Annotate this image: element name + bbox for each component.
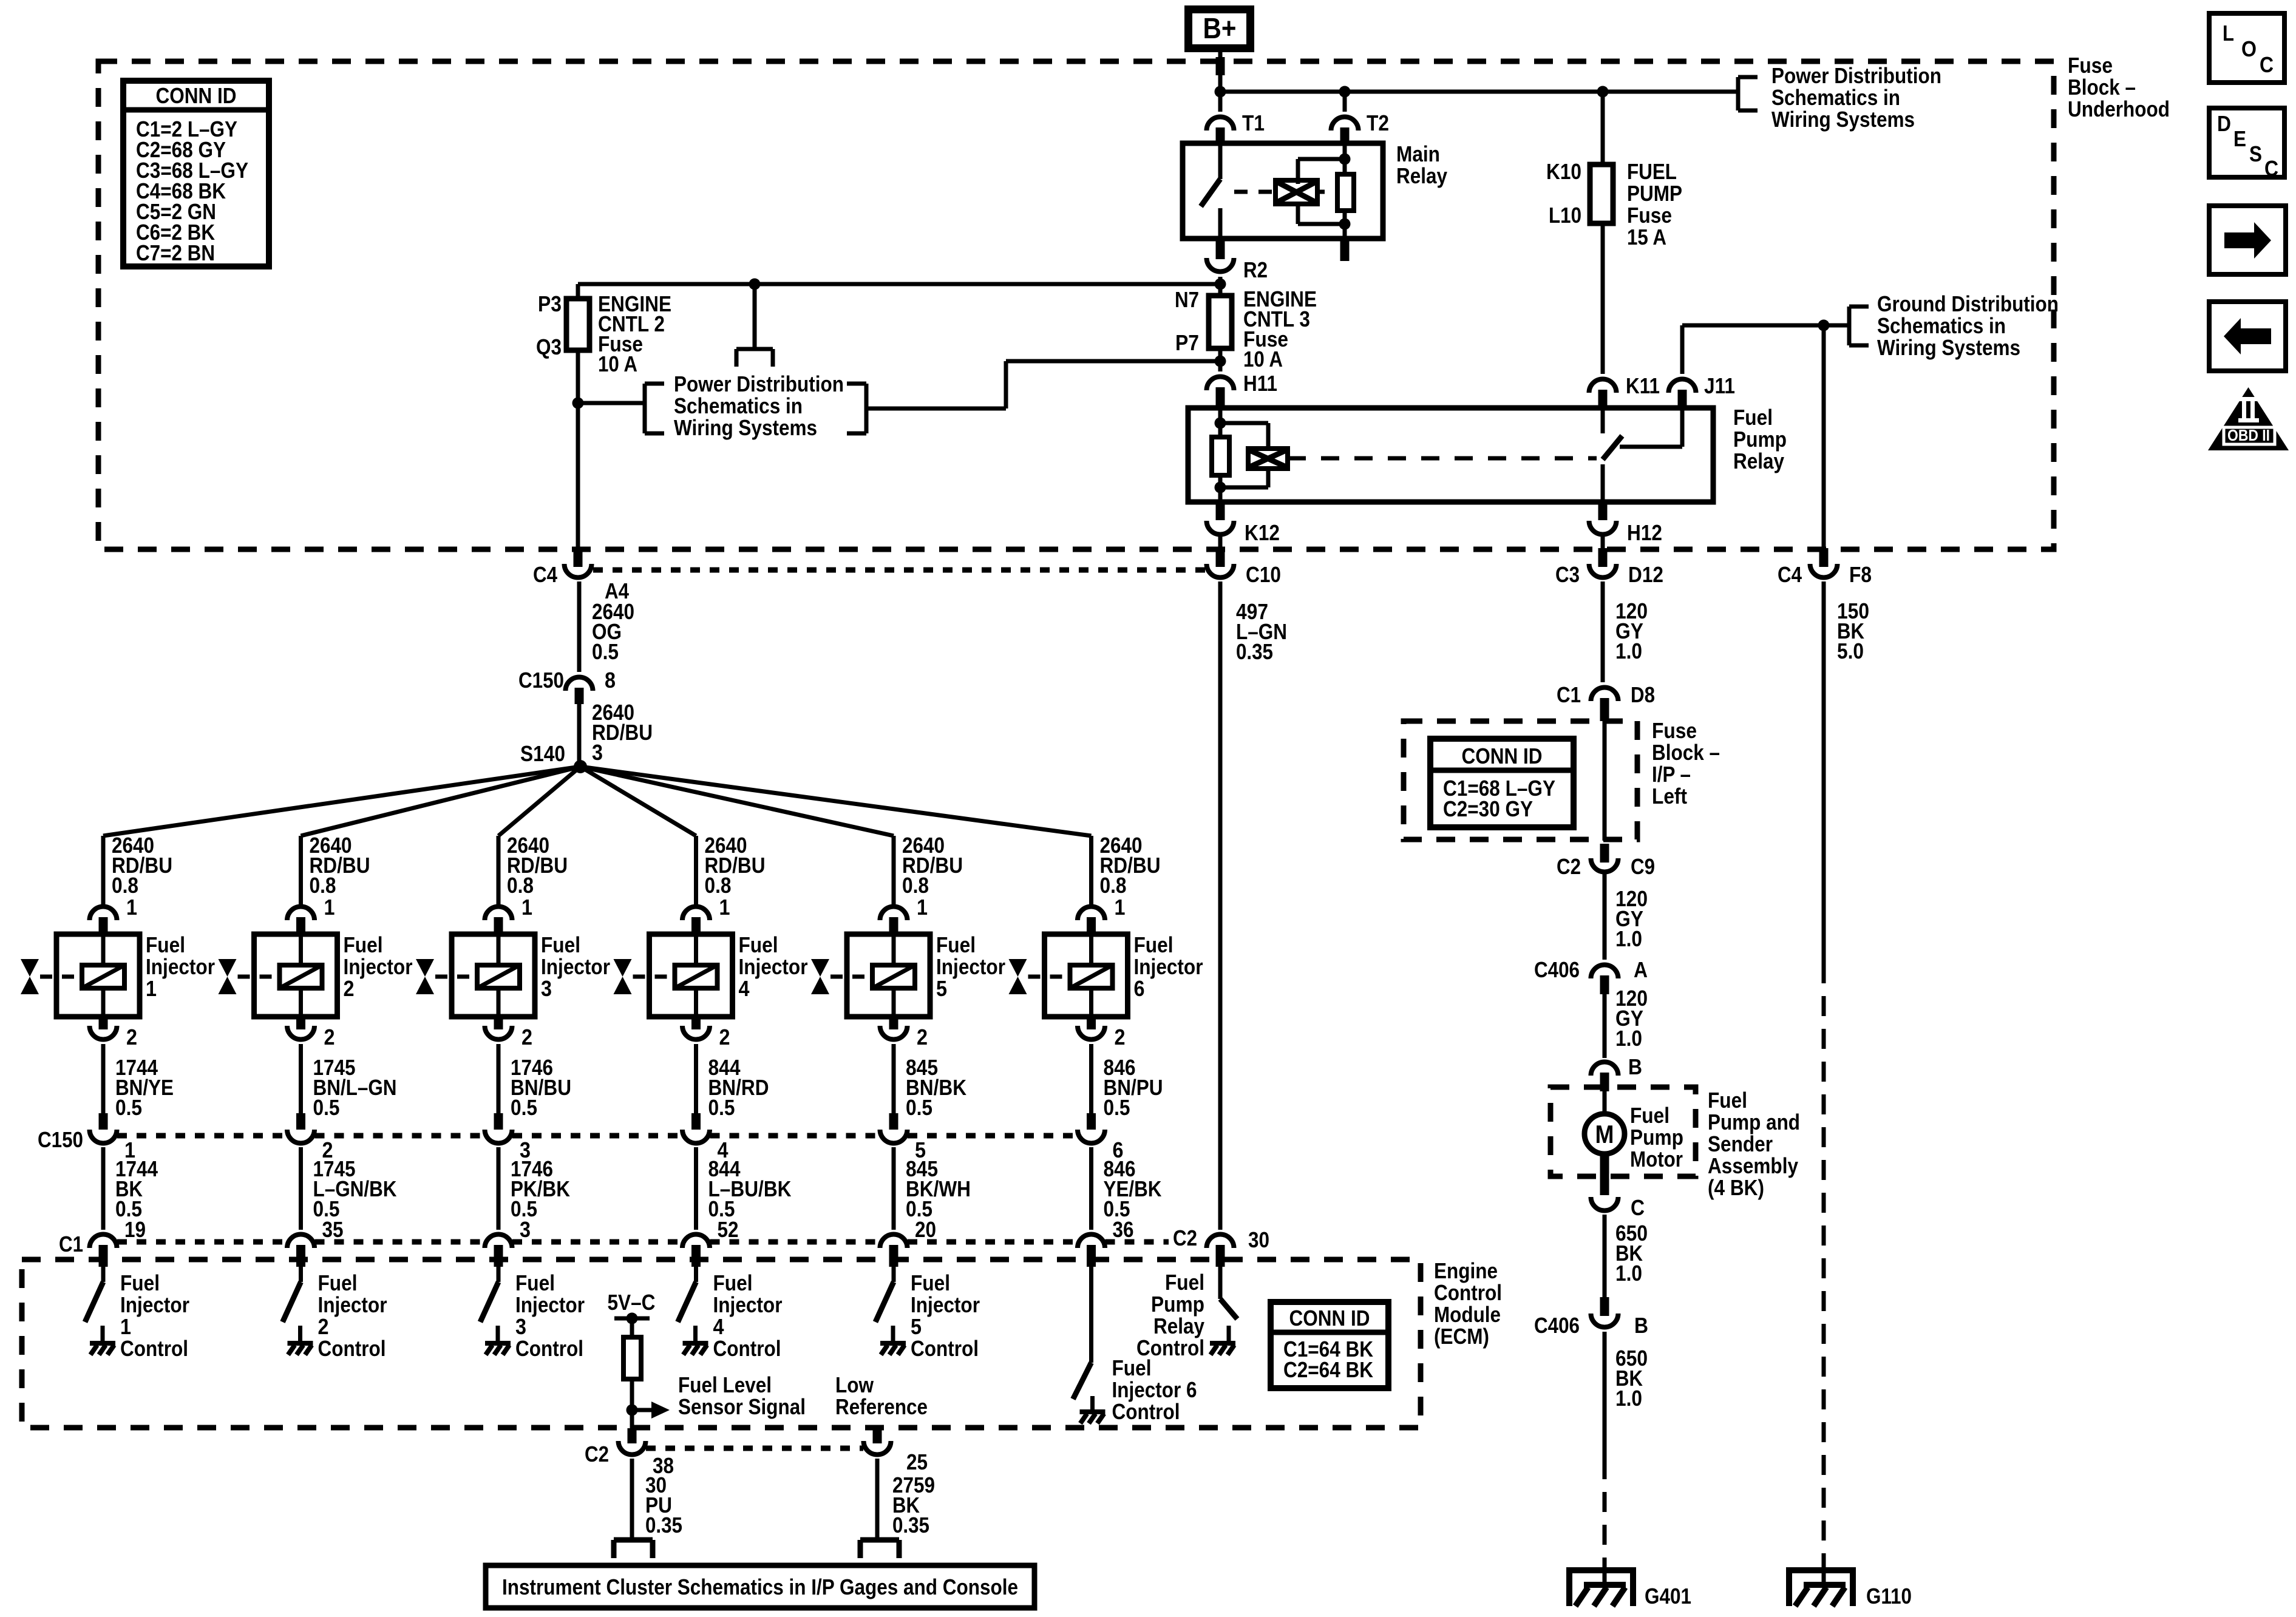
svg-text:4: 4 <box>713 1314 724 1339</box>
svg-text:Injector: Injector <box>120 1292 189 1317</box>
svg-text:1: 1 <box>917 895 928 920</box>
svg-text:2: 2 <box>521 1025 532 1049</box>
svg-text:Module: Module <box>1434 1302 1501 1327</box>
svg-text:C4: C4 <box>1778 562 1802 587</box>
svg-text:Power Distribution: Power Distribution <box>1771 63 1941 88</box>
svg-text:C: C <box>1631 1195 1645 1220</box>
svg-text:1: 1 <box>521 895 532 920</box>
svg-text:Schematics in: Schematics in <box>1771 85 1900 110</box>
svg-text:Engine: Engine <box>1434 1258 1498 1283</box>
svg-text:C2: C2 <box>585 1442 609 1466</box>
svg-text:Relay: Relay <box>1396 163 1447 188</box>
svg-text:0.35: 0.35 <box>892 1513 929 1537</box>
svg-text:FUEL: FUEL <box>1627 159 1677 184</box>
svg-text:R2: R2 <box>1243 257 1268 282</box>
svg-text:J11: J11 <box>1704 373 1735 398</box>
svg-text:Injector 6: Injector 6 <box>1112 1377 1197 1402</box>
svg-text:20: 20 <box>915 1217 936 1242</box>
svg-text:C: C <box>2264 156 2278 181</box>
svg-text:19: 19 <box>124 1217 146 1242</box>
svg-text:Pump: Pump <box>1733 427 1787 452</box>
svg-text:PUMP: PUMP <box>1627 181 1682 206</box>
svg-text:Fuel: Fuel <box>911 1270 950 1295</box>
svg-text:10 A: 10 A <box>1243 347 1283 371</box>
svg-text:Wiring Systems: Wiring Systems <box>674 415 817 440</box>
svg-text:0.8: 0.8 <box>705 873 732 898</box>
svg-text:0.5: 0.5 <box>313 1095 340 1120</box>
svg-text:1: 1 <box>126 895 137 920</box>
svg-text:C1: C1 <box>1557 682 1581 707</box>
svg-text:(4 BK): (4 BK) <box>1708 1175 1764 1200</box>
svg-text:L10: L10 <box>1549 203 1581 228</box>
svg-text:0.5: 0.5 <box>592 639 619 664</box>
svg-text:Fuel: Fuel <box>936 932 976 957</box>
svg-text:C2: C2 <box>1557 854 1581 879</box>
svg-text:K11: K11 <box>1626 373 1660 398</box>
svg-text:Control: Control <box>911 1336 979 1361</box>
svg-text:Injector: Injector <box>515 1292 585 1317</box>
svg-text:C150: C150 <box>518 668 564 693</box>
svg-text:0.8: 0.8 <box>902 873 929 898</box>
svg-text:T2: T2 <box>1367 110 1389 135</box>
svg-text:Fuel: Fuel <box>344 932 383 957</box>
svg-text:3: 3 <box>515 1314 526 1339</box>
svg-text:B+: B+ <box>1203 13 1237 45</box>
svg-text:8: 8 <box>605 668 616 693</box>
svg-text:Pump and: Pump and <box>1708 1110 1800 1134</box>
svg-text:1.0: 1.0 <box>1615 639 1642 663</box>
svg-text:OBD II: OBD II <box>2227 426 2270 444</box>
svg-text:Instrument Cluster Schematics: Instrument Cluster Schematics in I/P Gag… <box>502 1575 1018 1599</box>
svg-text:C9: C9 <box>1631 854 1655 879</box>
svg-text:C4: C4 <box>533 562 557 587</box>
svg-text:1: 1 <box>1115 895 1126 920</box>
svg-text:N7: N7 <box>1175 287 1199 312</box>
svg-text:Injector: Injector <box>318 1292 387 1317</box>
svg-text:Fuel: Fuel <box>120 1270 160 1295</box>
svg-text:Fuel: Fuel <box>515 1270 555 1295</box>
svg-text:0.5: 0.5 <box>511 1095 537 1120</box>
svg-text:Control: Control <box>120 1336 188 1361</box>
svg-text:B: B <box>1634 1313 1648 1338</box>
svg-text:CONN ID: CONN ID <box>156 83 237 108</box>
svg-text:5V–C: 5V–C <box>608 1290 656 1315</box>
svg-text:C2: C2 <box>1173 1225 1197 1250</box>
svg-text:C2=64 BK: C2=64 BK <box>1283 1357 1373 1382</box>
svg-text:2: 2 <box>126 1025 137 1049</box>
svg-text:Injector: Injector <box>713 1292 783 1317</box>
svg-text:Control: Control <box>515 1336 583 1361</box>
svg-text:Control: Control <box>713 1336 781 1361</box>
svg-text:H12: H12 <box>1627 520 1662 545</box>
svg-text:0.35: 0.35 <box>1236 639 1273 664</box>
svg-text:Relay: Relay <box>1153 1314 1204 1338</box>
svg-text:0.8: 0.8 <box>1100 873 1127 898</box>
svg-text:Fuse: Fuse <box>1627 203 1672 228</box>
svg-text:F8: F8 <box>1849 562 1872 587</box>
svg-text:Underhood: Underhood <box>2068 97 2170 121</box>
svg-text:K12: K12 <box>1245 520 1280 545</box>
svg-text:5.0: 5.0 <box>1837 639 1864 663</box>
svg-text:6: 6 <box>1134 976 1145 1001</box>
svg-text:25: 25 <box>906 1449 928 1474</box>
svg-text:Schematics in: Schematics in <box>674 393 803 418</box>
svg-text:0.35: 0.35 <box>645 1513 682 1537</box>
svg-text:0.8: 0.8 <box>310 873 336 898</box>
svg-text:1: 1 <box>146 976 157 1001</box>
svg-text:O: O <box>2241 36 2257 61</box>
svg-text:1.0: 1.0 <box>1615 1261 1642 1286</box>
svg-text:Injector: Injector <box>1134 954 1203 979</box>
svg-text:15 A: 15 A <box>1627 225 1666 249</box>
svg-text:52: 52 <box>718 1217 739 1242</box>
svg-text:2: 2 <box>324 1025 335 1049</box>
svg-text:36: 36 <box>1113 1217 1134 1242</box>
svg-text:Left: Left <box>1652 784 1687 808</box>
svg-text:Injector: Injector <box>936 954 1005 979</box>
svg-text:0.8: 0.8 <box>507 873 534 898</box>
svg-text:Injector: Injector <box>541 954 610 979</box>
svg-text:5: 5 <box>911 1314 922 1339</box>
svg-text:S140: S140 <box>520 741 565 766</box>
svg-text:Relay: Relay <box>1733 449 1784 473</box>
svg-text:1.0: 1.0 <box>1615 926 1642 951</box>
svg-text:P3: P3 <box>538 291 562 316</box>
svg-text:G110: G110 <box>1866 1584 1912 1609</box>
svg-text:C406: C406 <box>1534 1313 1580 1338</box>
svg-text:B: B <box>1628 1054 1642 1079</box>
svg-text:Fuse: Fuse <box>1652 718 1697 743</box>
svg-text:Sender: Sender <box>1708 1131 1773 1156</box>
svg-text:P7: P7 <box>1175 330 1199 355</box>
svg-text:Injector: Injector <box>911 1292 980 1317</box>
svg-text:2: 2 <box>917 1025 928 1049</box>
svg-text:3: 3 <box>592 740 603 765</box>
svg-text:H11: H11 <box>1243 371 1277 396</box>
svg-text:Control: Control <box>318 1336 386 1361</box>
svg-text:L: L <box>2223 21 2234 46</box>
svg-text:Fuel: Fuel <box>541 932 580 957</box>
svg-text:Injector: Injector <box>146 954 215 979</box>
svg-text:Schematics in: Schematics in <box>1877 313 2006 338</box>
svg-text:10 A: 10 A <box>598 351 637 376</box>
svg-text:Motor: Motor <box>1630 1147 1683 1171</box>
svg-text:CONN ID: CONN ID <box>1462 744 1543 768</box>
svg-text:Fuel: Fuel <box>1165 1270 1204 1295</box>
svg-text:M: M <box>1595 1120 1614 1148</box>
svg-text:Fuel: Fuel <box>1630 1103 1669 1128</box>
svg-text:3: 3 <box>520 1217 531 1242</box>
svg-text:1.0: 1.0 <box>1615 1026 1642 1051</box>
svg-text:T1: T1 <box>1242 110 1265 135</box>
svg-text:C2=30 GY: C2=30 GY <box>1443 796 1533 821</box>
svg-text:35: 35 <box>322 1217 344 1242</box>
svg-text:1: 1 <box>120 1314 131 1339</box>
svg-text:Pump: Pump <box>1151 1292 1204 1317</box>
svg-text:0.8: 0.8 <box>112 873 138 898</box>
svg-text:2: 2 <box>344 976 355 1001</box>
svg-text:30: 30 <box>1248 1227 1269 1252</box>
svg-text:Injector: Injector <box>344 954 413 979</box>
svg-text:Control: Control <box>1434 1280 1502 1305</box>
svg-text:E: E <box>2233 126 2246 151</box>
svg-text:2: 2 <box>1115 1025 1126 1049</box>
svg-text:CONN ID: CONN ID <box>1289 1306 1370 1331</box>
svg-text:Main: Main <box>1396 141 1440 166</box>
svg-text:Fuel: Fuel <box>318 1270 358 1295</box>
svg-text:C7=2 BN: C7=2 BN <box>136 240 215 265</box>
svg-text:Fuel: Fuel <box>1708 1088 1747 1113</box>
svg-text:1: 1 <box>719 895 730 920</box>
svg-text:K10: K10 <box>1546 159 1581 184</box>
svg-text:Wiring Systems: Wiring Systems <box>1771 107 1915 132</box>
svg-text:0.5: 0.5 <box>906 1095 932 1120</box>
svg-text:4: 4 <box>739 976 750 1001</box>
svg-text:C150: C150 <box>38 1127 83 1152</box>
svg-text:Fuel: Fuel <box>1733 405 1773 430</box>
svg-text:Fuel: Fuel <box>146 932 185 957</box>
svg-text:Block –: Block – <box>2068 75 2136 100</box>
svg-text:Fuel Level: Fuel Level <box>678 1372 772 1397</box>
svg-text:C: C <box>2260 52 2274 77</box>
svg-text:0.5: 0.5 <box>708 1095 735 1120</box>
svg-text:0.5: 0.5 <box>115 1095 142 1120</box>
svg-text:G401: G401 <box>1645 1584 1691 1609</box>
svg-text:5: 5 <box>936 976 947 1001</box>
svg-text:Wiring Systems: Wiring Systems <box>1877 335 2020 360</box>
svg-text:1.0: 1.0 <box>1615 1386 1642 1411</box>
svg-text:Assembly: Assembly <box>1708 1153 1798 1178</box>
svg-text:0.5: 0.5 <box>1104 1095 1130 1120</box>
svg-text:D8: D8 <box>1631 682 1655 707</box>
svg-text:Pump: Pump <box>1630 1125 1683 1150</box>
svg-text:C1: C1 <box>59 1232 83 1256</box>
svg-text:S: S <box>2249 141 2262 166</box>
svg-text:Fuel: Fuel <box>713 1270 753 1295</box>
svg-text:Control: Control <box>1112 1399 1180 1424</box>
svg-text:Fuel: Fuel <box>739 932 778 957</box>
svg-text:Reference: Reference <box>835 1394 928 1419</box>
svg-text:Sensor Signal: Sensor Signal <box>678 1394 806 1419</box>
svg-text:Ground Distribution: Ground Distribution <box>1877 291 2059 316</box>
svg-text:I/P –: I/P – <box>1652 762 1691 787</box>
svg-text:Fuse: Fuse <box>2068 53 2113 78</box>
svg-text:(ECM): (ECM) <box>1434 1324 1489 1349</box>
svg-text:Injector: Injector <box>739 954 808 979</box>
svg-text:C10: C10 <box>1246 562 1281 587</box>
svg-text:D: D <box>2217 111 2231 136</box>
svg-text:Power Distribution: Power Distribution <box>674 371 844 396</box>
svg-text:D12: D12 <box>1628 562 1663 587</box>
svg-text:3: 3 <box>541 976 552 1001</box>
svg-text:C406: C406 <box>1534 957 1580 982</box>
svg-text:C3: C3 <box>1555 562 1580 587</box>
svg-text:A: A <box>1634 957 1648 982</box>
svg-text:Fuel: Fuel <box>1134 932 1173 957</box>
svg-text:2: 2 <box>318 1314 329 1339</box>
svg-text:1: 1 <box>324 895 335 920</box>
svg-text:Block –: Block – <box>1652 740 1720 765</box>
svg-text:Q3: Q3 <box>536 334 562 359</box>
svg-text:Fuel: Fuel <box>1112 1355 1152 1380</box>
svg-text:Low: Low <box>835 1372 874 1397</box>
svg-text:2: 2 <box>719 1025 730 1049</box>
